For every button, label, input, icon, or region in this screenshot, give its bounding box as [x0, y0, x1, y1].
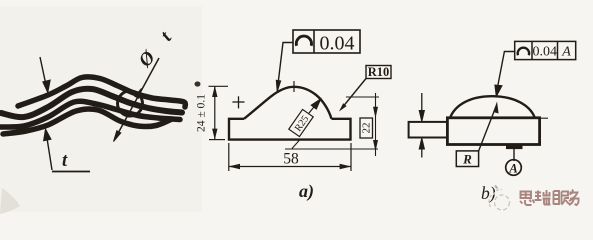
- svg-text:24 ± 0.1: 24 ± 0.1: [196, 94, 208, 132]
- wire curve C3: [0, 101, 180, 127]
- tick at dome peak: [293, 81, 295, 92]
- dimension 58 (bottom): [229, 143, 351, 171]
- svg-text:b): b): [481, 183, 496, 203]
- 瑞: [535, 191, 542, 201]
- svg-text:22: 22: [361, 123, 373, 134]
- dome arc: [450, 96, 535, 118]
- 思: [521, 192, 532, 199]
- dimension 22 (right, boxed): [285, 93, 379, 156]
- tab thickness arrows: [419, 93, 424, 158]
- svg-text:R: R: [462, 152, 472, 167]
- 务: [569, 190, 578, 202]
- scan blob: [195, 81, 201, 86]
- feature control frame a: profile 0.04: [293, 30, 360, 53]
- leader from frame a to dome: [276, 43, 293, 92]
- logo swirl: [489, 186, 510, 211]
- svg-text:A: A: [508, 161, 517, 175]
- arrow upper-left into curves: [40, 57, 50, 93]
- leader for Øt through circle: [114, 58, 160, 142]
- svg-text:0.04: 0.04: [533, 45, 558, 60]
- leader and label t (bottom): [44, 129, 90, 172]
- tolerance circle Øt: [118, 91, 143, 116]
- center cross mark: [232, 96, 244, 108]
- svg-text:R10: R10: [368, 65, 390, 79]
- part outline: base with dome: [229, 119, 351, 140]
- svg-text:a): a): [299, 181, 314, 202]
- svg-text:0.04: 0.04: [320, 33, 355, 55]
- base rectangle: [447, 118, 539, 145]
- R10 boxed label with leader: [342, 66, 392, 109]
- datum A symbol: [507, 146, 523, 161]
- watermark text 思瑞服务: [520, 190, 579, 206]
- dome arc R25: [244, 87, 332, 119]
- smudge bottom-left: [0, 188, 20, 214]
- left tab: [409, 122, 448, 138]
- R25 rotated boxed label with leader: [289, 109, 314, 136]
- dimension 24 ± 0.1 (left): [209, 86, 229, 139]
- wire curve C1 (top): [18, 77, 185, 107]
- svg-text:58: 58: [283, 151, 299, 168]
- 服: [554, 191, 560, 205]
- feature control frame b: profile 0.04 A: [515, 41, 576, 59]
- wire curve C4 (bottom): [3, 109, 172, 134]
- wire curve C2: [1, 89, 182, 117]
- leader from frame b to dome: [495, 52, 515, 97]
- R boxed label with leader: [456, 151, 478, 167]
- svg-text:A: A: [561, 45, 571, 60]
- svg-text:t: t: [62, 151, 68, 171]
